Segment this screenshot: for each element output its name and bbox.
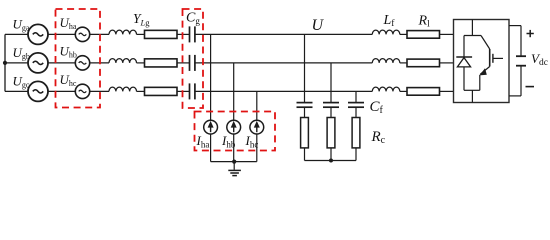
svg-text:U: U	[312, 17, 325, 34]
